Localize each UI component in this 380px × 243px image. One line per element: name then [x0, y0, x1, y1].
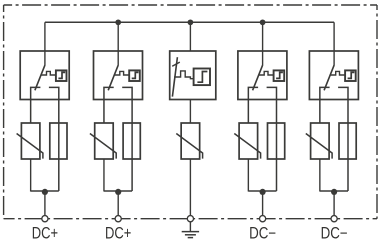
bus junction dot at x=190.4	[188, 19, 194, 25]
disconnector box 2 (thermal disconnect switch with status indicator)	[94, 51, 143, 100]
terminal PE (earth)	[187, 216, 193, 222]
wire: bus drop into box 2	[117, 22, 119, 65]
earth ground symbol	[182, 232, 199, 238]
switch blade (box 3)	[172, 57, 177, 96]
disconnector box 1 (thermal disconnect switch with status indicator)	[20, 51, 69, 100]
varistor 5	[311, 123, 330, 159]
fuse / backup element 2	[123, 123, 140, 159]
terminal DC+ (block 2)	[115, 216, 121, 222]
wire: junction to terminal (block 2)	[117, 192, 119, 216]
varistor 4	[239, 123, 258, 159]
status indicator window (box 3)	[194, 69, 210, 86]
wire: right contact + leg through fuse (box 2)	[122, 87, 132, 191]
disconnector box 3 (centre, thermal disconnect to earth)	[170, 51, 216, 100]
status indicator window (box 4)	[274, 70, 285, 81]
wire: varistor 3 to earth terminal	[189, 159, 191, 216]
bus wire (top horizontal net)	[45, 21, 334, 23]
terminal DC- (block 5)	[331, 216, 337, 222]
wire: bus drop into box 3	[189, 22, 191, 51]
indicator step glyph (box 3)	[197, 72, 207, 83]
junction dot (block 1)	[42, 189, 48, 195]
wire: varistor 5 to junction	[319, 159, 321, 192]
switch blade (box 1)	[35, 65, 45, 90]
mechanical linkage (box 2)	[114, 71, 129, 75]
bus junction dot at x=118.2	[115, 19, 121, 25]
mechanical linkage (box 3)	[174, 71, 194, 79]
wire: box 3 to varistor	[189, 99, 191, 123]
blade tick (box 3)	[172, 62, 180, 66]
wire: left contact + leg to varistor (box 1)	[31, 87, 41, 123]
status indicator window (box 1)	[56, 70, 67, 81]
junction dot (block 5)	[331, 189, 337, 195]
switch blade (box 2)	[108, 65, 118, 90]
switch blade (box 4)	[253, 65, 263, 90]
junction dot (block 2)	[115, 189, 121, 195]
varistor 2	[95, 123, 114, 159]
wire: bottom join bar (block 1)	[31, 190, 59, 192]
wire: bottom join bar (block 5)	[320, 190, 348, 192]
wire: left contact + leg to varistor (box 5)	[320, 87, 330, 123]
wire: junction to terminal (block 1)	[44, 192, 46, 216]
svg-text:DC−: DC−	[249, 225, 276, 243]
wire: bottom join bar (block 2)	[104, 190, 132, 192]
fuse / backup element 1	[50, 123, 67, 159]
wire: right contact + leg through fuse (box 1)	[49, 87, 59, 191]
fuse / backup element 5	[339, 123, 356, 159]
terminal DC- (block 4)	[260, 216, 266, 222]
indicator step glyph (box 5)	[348, 72, 355, 78]
wire: bus drop into box 5	[333, 22, 335, 65]
fuse / backup element 4	[268, 123, 285, 159]
indicator step glyph (box 1)	[58, 72, 65, 78]
wire: left contact + leg to varistor (box 2)	[104, 87, 114, 123]
mechanical linkage (box 5)	[330, 71, 345, 75]
mechanical linkage (box 4)	[258, 71, 273, 75]
svg-text:DC+: DC+	[32, 225, 58, 243]
indicator step glyph (box 2)	[132, 72, 139, 78]
wire: terminal to earth symbol	[189, 222, 191, 232]
svg-text:DC+: DC+	[105, 225, 131, 243]
wire: varistor 1 to junction	[30, 159, 32, 192]
terminal DC+ (block 1)	[42, 216, 48, 222]
wire: right contact + leg through fuse (box 4)	[267, 87, 277, 191]
wire: bottom join bar (block 4)	[248, 190, 276, 192]
wire: left contact + leg to varistor (box 4)	[248, 87, 258, 123]
varistor 3 (centre)	[181, 123, 200, 159]
status indicator window (box 5)	[345, 70, 356, 81]
varistor 1	[21, 123, 40, 159]
wire: right contact + leg through fuse (box 5)	[338, 87, 348, 191]
disconnector box 5 (thermal disconnect switch with status indicator)	[309, 51, 358, 100]
bus junction dot at x=262.6	[260, 19, 266, 25]
wire: bus drop into box 4	[262, 22, 264, 65]
svg-text:DC−: DC−	[321, 225, 348, 243]
wire: junction to terminal (block 4)	[262, 192, 264, 216]
wire: bus drop into box 1	[44, 22, 46, 65]
wire: junction to terminal (block 5)	[333, 192, 335, 216]
wire: varistor 2 to junction	[103, 159, 105, 192]
junction dot (block 4)	[260, 189, 266, 195]
mechanical linkage (box 1)	[41, 71, 56, 75]
switch blade (box 5)	[324, 65, 334, 90]
status indicator window (box 2)	[129, 70, 140, 81]
wire: varistor 4 to junction	[247, 159, 249, 192]
disconnector box 4 (thermal disconnect switch with status indicator)	[238, 51, 287, 100]
indicator step glyph (box 4)	[276, 72, 283, 78]
